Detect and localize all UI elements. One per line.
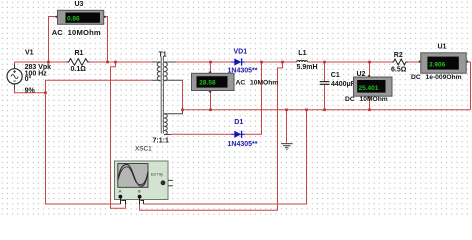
wire R1 to transformer primary top <box>90 61 152 63</box>
wire scope channel A probe <box>111 62 126 208</box>
svg-text:3.906: 3.906 <box>429 61 446 68</box>
wire U2 bottom pin <box>369 96 371 110</box>
svg-text:C1: C1 <box>331 72 340 79</box>
wire scope channel B probe <box>140 62 283 210</box>
wire U3 right terminal <box>104 17 108 63</box>
svg-text:0.86: 0.86 <box>67 15 80 22</box>
svg-text:7:1:1: 7:1:1 <box>153 137 169 144</box>
svg-text:VD1: VD1 <box>234 48 248 55</box>
svg-text:U1: U1 <box>438 43 447 50</box>
ammeter U1 <box>419 53 468 73</box>
svg-text:V1: V1 <box>25 49 34 56</box>
svg-text:AC10MOhm: AC10MOhm <box>236 80 279 87</box>
resistor R1 <box>67 59 90 66</box>
svg-text:5.9mH: 5.9mH <box>297 64 318 71</box>
svg-text:Ext Trig: Ext Trig <box>151 173 163 177</box>
wire VD1 cathode to node <box>245 61 297 63</box>
inductor L1 <box>297 61 308 62</box>
wire lower secondary to D1 <box>171 133 231 135</box>
wire U5 top pin <box>210 62 212 73</box>
svg-text:28.58: 28.58 <box>199 80 216 87</box>
diode D1 <box>231 131 245 138</box>
wire R2 to U1 <box>406 61 421 63</box>
wire ground stem <box>286 110 288 143</box>
svg-text:0.1Ω: 0.1Ω <box>71 66 87 73</box>
voltmeter U3 <box>56 10 106 24</box>
svg-text:6.5Ω: 6.5Ω <box>391 67 407 74</box>
AC source V1 <box>7 64 22 89</box>
svg-text:0°: 0° <box>25 75 32 83</box>
voltmeter U5 <box>192 72 235 93</box>
wire scope channel B ground return <box>144 110 307 204</box>
oscilloscope XSC1 <box>115 161 174 204</box>
wire U2 top pin <box>369 62 371 77</box>
wire V1 top lead <box>14 62 16 69</box>
wire C1 bottom stem <box>324 85 326 110</box>
svg-text:U3: U3 <box>75 1 84 8</box>
wire U3 left terminal <box>49 17 58 63</box>
wire primary return left vertical <box>46 80 153 204</box>
svg-text:U2: U2 <box>357 71 366 78</box>
wire center rail <box>183 109 471 111</box>
wire secondary top to VD1 <box>176 61 231 63</box>
wire D1 cathode riser <box>245 62 262 134</box>
svg-text:R2: R2 <box>394 52 403 59</box>
svg-text:L1: L1 <box>298 50 306 57</box>
capacitor C1 <box>320 82 330 85</box>
svg-text:T1: T1 <box>159 52 167 59</box>
wire main top from V1 to R1 <box>15 61 67 63</box>
resistor R2 <box>392 59 408 65</box>
svg-text:A: A <box>119 189 122 194</box>
transformer T1 <box>152 57 183 135</box>
wire secondary bottom to center node <box>182 80 184 110</box>
wire U5 bottom pin <box>210 91 212 110</box>
wire V1 bottom lead <box>15 84 46 93</box>
wire node to L1 then to R2 <box>308 61 393 63</box>
svg-text:D1: D1 <box>234 119 243 126</box>
svg-text:AC10MOhm: AC10MOhm <box>52 28 101 37</box>
svg-text:25.401: 25.401 <box>359 85 379 92</box>
svg-text:9%: 9% <box>25 88 36 95</box>
svg-text:R1: R1 <box>75 50 84 57</box>
wire U1 right to rail <box>466 62 470 110</box>
voltmeter U2 <box>354 75 393 98</box>
svg-text:4400µF: 4400µF <box>331 81 356 88</box>
diode VD1 <box>231 58 245 65</box>
svg-text:XSC1: XSC1 <box>135 145 152 152</box>
svg-text:DC10MOhm: DC10MOhm <box>345 96 388 103</box>
ground <box>281 144 293 150</box>
svg-text:DC1e-009Ohm: DC1e-009Ohm <box>411 74 462 81</box>
junction node dots <box>44 61 371 111</box>
svg-text:B: B <box>138 189 141 194</box>
wire C1 top stem <box>324 62 326 81</box>
svg-text:1N4305**: 1N4305** <box>228 141 258 148</box>
